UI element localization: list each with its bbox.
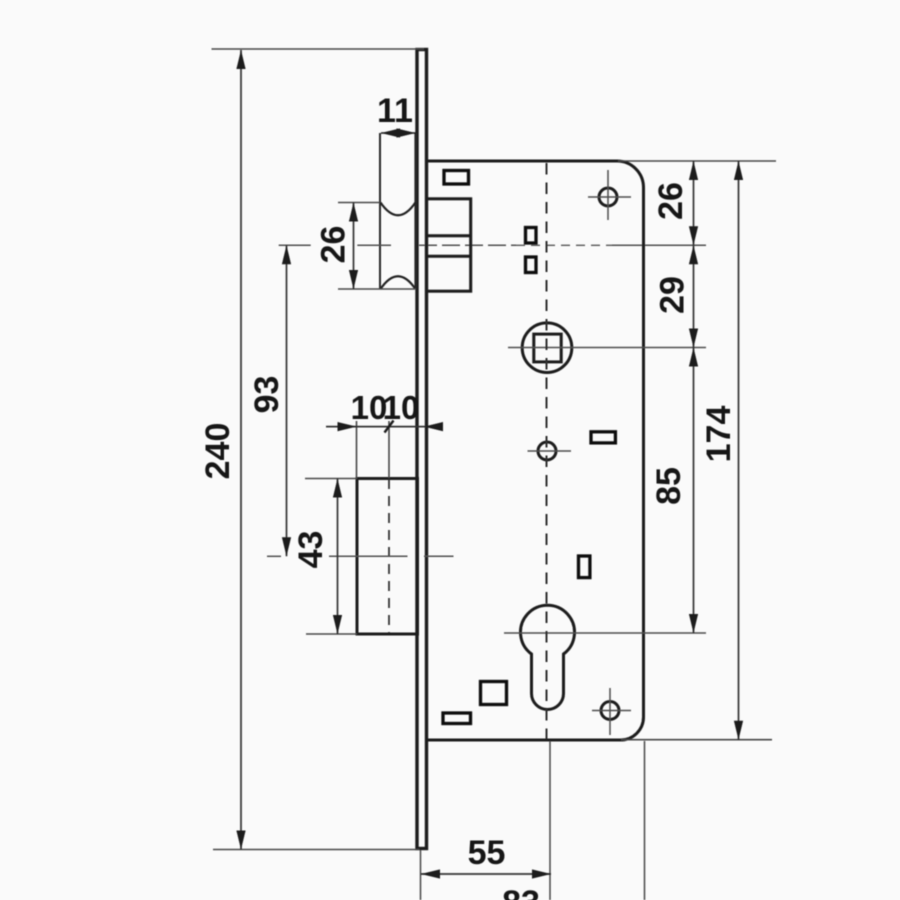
- bottom screw crosshair vertical: [609, 688, 611, 735]
- latch housing: [427, 199, 471, 291]
- deadbolt dashed guide line: [388, 479, 390, 633]
- deadbolt: [357, 479, 418, 635]
- bottom screw crosshair horizontal: [592, 710, 631, 712]
- svg-text:83: 83: [502, 884, 540, 900]
- latch housing upper line: [427, 234, 471, 237]
- euro cylinder profile hole: [521, 605, 575, 709]
- follower circle (spindle hub): [522, 323, 572, 373]
- dim 11 arrow right: [397, 128, 416, 137]
- dim 29 arrow top: [689, 245, 698, 264]
- dim 240 arrow top: [236, 50, 245, 69]
- centerline bottom extension: [549, 741, 551, 900]
- dim 1010 middle extension: [388, 421, 390, 478]
- dim 174 arrow top: [734, 161, 743, 180]
- dim 1010 arrow left: [338, 422, 357, 431]
- dim 93 arrow top: [282, 245, 291, 264]
- slot right of center: [591, 432, 615, 443]
- dim 85 arrow bottom: [689, 614, 698, 633]
- dim 1010 arrow right: [424, 422, 443, 431]
- dim 26 right arrow bottom: [689, 226, 698, 245]
- latch bolt left edge: [379, 133, 381, 289]
- svg-text:26: 26: [652, 182, 690, 220]
- dim 29 arrow bottom: [689, 329, 698, 348]
- dim 43 arrow bottom: [333, 615, 342, 634]
- dim 174 arrow bottom: [734, 721, 743, 740]
- svg-text:10: 10: [383, 389, 420, 426]
- latch housing lower line: [427, 255, 471, 258]
- svg-text:11: 11: [377, 92, 413, 130]
- svg-text:85: 85: [650, 467, 688, 505]
- dim 29 line: [693, 245, 695, 347]
- dim 11 arrow left: [381, 128, 400, 137]
- middle screw crosshair: [528, 450, 572, 452]
- svg-text:43: 43: [292, 531, 330, 569]
- dim 26 left arrow top: [349, 203, 358, 222]
- latch centerline: [279, 244, 311, 246]
- dim 26 left arrow bottom: [349, 270, 358, 289]
- dim 26 right line: [693, 161, 695, 245]
- svg-text:240: 240: [199, 423, 237, 480]
- latch bolt lower bevel arc: [381, 276, 416, 289]
- dim 1010 line: [326, 426, 443, 428]
- top screw crosshair horizontal: [588, 196, 631, 198]
- square hole left of cylinder: [481, 682, 507, 705]
- dim 26 left extension top: [338, 202, 380, 204]
- dim 1010 left extension (deadbolt face): [356, 421, 358, 479]
- deadbolt centerline: [267, 555, 281, 557]
- top-right screw hole: [599, 188, 617, 206]
- dim 43 extension top: [305, 478, 357, 480]
- cylinder centerline / extension: [504, 632, 706, 634]
- svg-text:174: 174: [700, 406, 738, 463]
- small slot upper middle: [526, 228, 537, 244]
- faceplate bottom extension: [420, 850, 422, 900]
- svg-text:55: 55: [468, 834, 506, 872]
- dim 11 line with double arrows: [381, 132, 416, 134]
- dim 43 line: [337, 479, 339, 635]
- body bottom extension line: [621, 739, 772, 741]
- dim 240 arrow bottom: [236, 831, 245, 850]
- body right edge bottom extension: [644, 741, 646, 900]
- svg-text:29: 29: [654, 276, 692, 314]
- dim 93 line: [286, 245, 288, 556]
- dim 43 arrow top: [333, 479, 342, 498]
- dim 240 top extension: [212, 48, 425, 50]
- dim 55 arrow right: [532, 869, 551, 878]
- vertical slot above cylinder: [579, 556, 590, 578]
- lock body outline: [427, 161, 644, 740]
- dim 240 bottom extension: [213, 849, 420, 851]
- dim 1010 middle tick: [385, 421, 394, 433]
- middle screw hole: [538, 442, 556, 460]
- body top extension line: [618, 160, 776, 162]
- dim 26 right arrow top: [689, 161, 698, 180]
- bottom-left slot: [443, 713, 471, 724]
- vertical dashed centerline: [546, 163, 548, 739]
- dim 240 line: [240, 50, 242, 850]
- latch bolt right edge: [414, 133, 416, 289]
- dim 174 line: [738, 161, 740, 740]
- dim 26 left extension bottom: [338, 288, 416, 290]
- dim 43 extension bottom: [306, 633, 357, 635]
- follower square hole: [534, 334, 561, 362]
- dim 26 left line: [353, 203, 355, 290]
- dim 55 line: [421, 873, 551, 875]
- top screw crosshair vertical: [607, 170, 609, 220]
- svg-text:93: 93: [248, 376, 286, 414]
- dim 93 arrow bottom: [282, 537, 291, 556]
- latch bolt upper bevel arc: [381, 203, 416, 216]
- bottom-right screw hole: [601, 702, 619, 720]
- dim 85 arrow top: [689, 348, 698, 367]
- dim 85 line: [693, 348, 695, 634]
- dim 55 arrow left: [421, 869, 440, 878]
- svg-text:26: 26: [315, 226, 353, 264]
- follower centerline / extension: [508, 347, 706, 349]
- top slot: [444, 171, 469, 185]
- small slot lower middle: [526, 257, 537, 273]
- faceplate (front plate): [417, 50, 427, 849]
